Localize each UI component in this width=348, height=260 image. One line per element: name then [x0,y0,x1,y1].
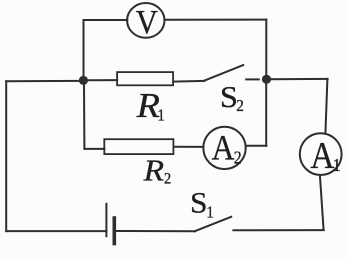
svg-text:A: A [212,129,235,168]
switch S2 contact segment [246,78,259,80]
ammeter A2 circle [203,127,245,169]
node B junction dot [262,75,271,84]
ammeter label A1 [310,134,340,176]
wire bottom-left horizontal [6,230,106,232]
wire node A right to R1 [88,79,118,81]
battery positive plate (long thin) [105,204,107,236]
svg-text:V: V [136,3,158,41]
resistor R1 box [117,72,173,85]
wire left riser from node A down to R2 row [83,84,85,149]
svg-text:R: R [136,85,160,124]
wire node A up vertical to top wire [83,20,85,77]
wire R1 to switch S2 pivot [173,80,204,83]
switch S2 blade [204,65,244,81]
ammeter label A2 [212,129,242,168]
battery negative plate (short thick) [113,218,117,244]
wire bottom-right horizontal to S1 contact [233,229,323,231]
svg-text:S: S [220,80,238,114]
wire node A left to left rail [6,80,79,82]
svg-text:2: 2 [164,170,171,188]
wire node B right to A1 branch corner [270,78,328,80]
wire top-right horizontal [165,19,267,21]
voltmeter V circle [127,3,164,38]
wire A1 bottom vertical [320,175,324,230]
svg-text:A: A [310,134,334,176]
wire left rail vertical [5,81,7,231]
resistor R2 box [104,139,173,154]
label R2 [143,152,172,187]
svg-text:S: S [190,186,208,219]
svg-text:1: 1 [206,204,214,222]
svg-text:1: 1 [333,155,341,175]
wire A2 left to R2 [174,146,204,148]
wire top-left horizontal [84,19,128,21]
label S2 [220,80,244,116]
ammeter A1 circle [300,133,342,175]
wire top-right vertical down to node B [265,20,267,77]
svg-text:1: 1 [157,107,165,125]
svg-text:2: 2 [236,97,244,115]
wire A1 top vertical [325,79,327,134]
label S1 [190,186,214,222]
wire battery to S1 pivot [114,230,195,232]
wire A2 right horizontal [246,145,267,147]
node A junction dot [79,76,88,85]
svg-text:R: R [143,152,165,187]
switch S1 blade [195,217,231,231]
wire R2 left horizontal [85,148,105,150]
svg-text:2: 2 [234,147,242,167]
wire node B down riser to A2 row [265,82,267,146]
label R1 [136,85,165,124]
